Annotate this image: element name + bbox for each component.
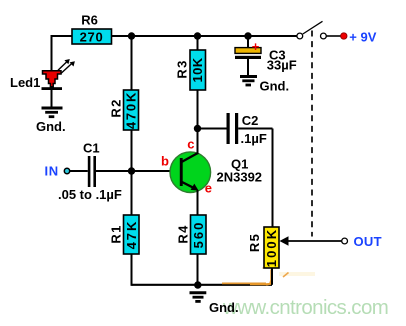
wire LED column drop from rail — [51, 35, 53, 72]
switch throw circle — [321, 33, 327, 39]
svg-text:560: 560 — [191, 221, 206, 249]
node junction dot rail/R2 — [128, 32, 135, 39]
potentiometer R5 100K — [247, 227, 279, 268]
dashed gang line switch to pot — [311, 31, 313, 237]
transistor Q1 2N3392 — [161, 137, 262, 196]
svg-text:.1µF: .1µF — [241, 131, 267, 146]
capacitor C1 — [58, 141, 122, 203]
wire R4 bottom — [197, 254, 199, 286]
terminal OUT — [342, 238, 348, 244]
wire R3 bottom to collector — [197, 90, 199, 153]
wire R1 top — [131, 171, 133, 215]
wiper arrow of R5 — [280, 236, 289, 245]
svg-text:Gnd.: Gnd. — [260, 79, 290, 94]
wire emitter down — [197, 190, 199, 215]
resistor R4 560 — [175, 215, 206, 254]
svg-text:33µF: 33µF — [267, 57, 297, 72]
wire C3 top — [247, 36, 249, 48]
resistor R6 270 — [72, 13, 112, 45]
wire R2 bottom to base node — [131, 130, 133, 171]
svg-text:R5: R5 — [247, 233, 262, 252]
svg-text:100K: 100K — [264, 228, 279, 267]
resistor R2 470K — [108, 90, 138, 130]
svg-text:C2: C2 — [242, 113, 259, 128]
svg-text:R6: R6 — [81, 13, 98, 28]
artifact orange trace on bottom rail — [222, 282, 266, 284]
node junction dot bottom — [194, 281, 201, 288]
wire bottom rail — [132, 284, 273, 286]
wire top rail main segment — [112, 35, 298, 37]
wire C2 to right column — [238, 128, 272, 130]
svg-text:R4: R4 — [175, 224, 190, 243]
wire IN to C1 — [70, 170, 88, 172]
wire R5 bottom — [271, 268, 273, 285]
svg-text:R2: R2 — [108, 98, 123, 117]
wire collector node to C2 — [198, 128, 227, 130]
svg-text:e: e — [205, 181, 212, 196]
node battery terminal red dot — [341, 33, 347, 39]
svg-text:Gnd.: Gnd. — [36, 119, 66, 134]
svg-text:Led1: Led1 — [10, 75, 40, 90]
resistor R3 10K — [175, 50, 206, 90]
node junction dot base node — [128, 167, 135, 174]
ground (LED) — [36, 108, 66, 134]
svg-text:.05 to .1µF: .05 to .1µF — [58, 187, 122, 202]
svg-text:2N3392: 2N3392 — [217, 170, 263, 185]
svg-text:Gnd.: Gnd. — [209, 300, 239, 315]
LED Led1 — [10, 59, 75, 90]
ground (bottom) — [190, 293, 239, 315]
capacitor C3 33uF electrolytic — [235, 39, 297, 72]
svg-text:R1: R1 — [108, 224, 123, 243]
svg-text:OUT: OUT — [354, 234, 382, 249]
wire R3 top — [197, 36, 199, 50]
svg-text:b: b — [161, 154, 169, 169]
svg-text:www.cntronics.com: www.cntronics.com — [222, 296, 388, 319]
node junction dot rail/R3 — [194, 32, 201, 39]
svg-text:c: c — [187, 137, 194, 152]
capacitor C2 .1uF — [227, 113, 267, 146]
svg-text:+ 9V: + 9V — [349, 29, 376, 44]
svg-text:10K: 10K — [190, 57, 205, 82]
wire right column down to R5 — [272, 129, 274, 228]
terminal IN — [64, 168, 69, 173]
wire C3 to ground — [247, 59, 249, 76]
svg-text:C1: C1 — [83, 141, 100, 156]
wire R1 bottom — [131, 254, 133, 286]
node junction dot collector — [194, 125, 201, 132]
wire switch to battery dot — [327, 35, 342, 37]
svg-text:R3: R3 — [175, 59, 190, 78]
svg-text:47K: 47K — [124, 220, 139, 250]
wire R2 top — [131, 36, 133, 90]
wire LED cathode to ground — [51, 90, 53, 107]
ground (C3) — [240, 77, 289, 94]
switch blade — [303, 21, 323, 34]
wire top rail left segment — [52, 35, 73, 37]
switch SW1 pole circle — [297, 33, 303, 39]
svg-text:270: 270 — [80, 30, 104, 45]
svg-text:IN: IN — [45, 164, 59, 179]
wire C1 to base — [96, 170, 180, 172]
resistor R1 47K — [108, 215, 139, 254]
wire wiper to OUT — [287, 240, 341, 242]
svg-text:470K: 470K — [124, 91, 139, 129]
svg-text:+: + — [252, 39, 260, 54]
artifact faint smudges — [279, 272, 315, 276]
node junction dot rail/C3 — [244, 32, 251, 39]
artifact orange corner to R5 — [266, 270, 271, 285]
